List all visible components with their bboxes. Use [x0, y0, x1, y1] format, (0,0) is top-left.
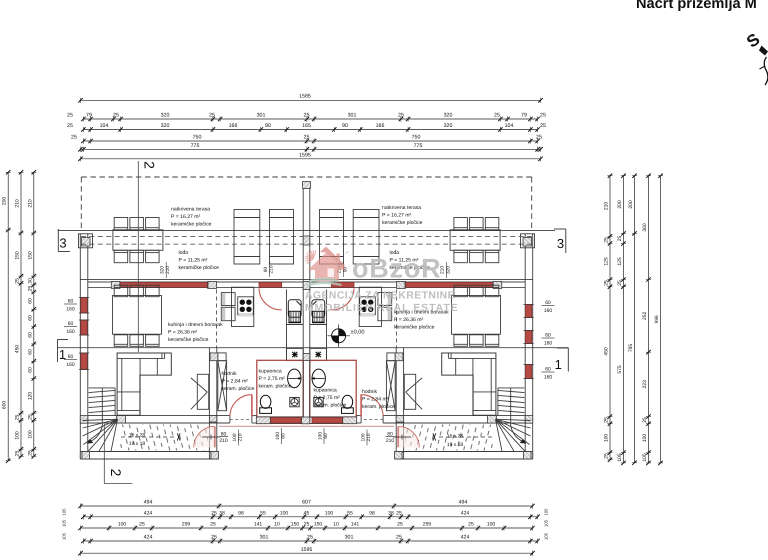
svg-text:natkrivena terasa: natkrivena terasa: [382, 205, 421, 211]
svg-text:P = 2,75 m²: P = 2,75 m²: [314, 395, 341, 401]
svg-text:25: 25: [494, 113, 500, 119]
kitchen zone dashed line (left unit): [215, 290, 217, 348]
bottom dimension labels: [62, 500, 549, 553]
section marker 1 right: [555, 348, 569, 372]
svg-text:320: 320: [445, 266, 451, 274]
svg-text:105: 105: [62, 519, 67, 527]
corridor vertical wall (left unit): [209, 348, 216, 459]
svg-text:25: 25: [603, 280, 609, 286]
svg-text:25: 25: [210, 522, 216, 528]
right dimension lines: [607, 174, 663, 466]
svg-text:25: 25: [304, 135, 310, 141]
svg-text:10: 10: [333, 522, 339, 528]
svg-text:141: 141: [254, 522, 263, 528]
svg-text:252: 252: [642, 311, 648, 320]
svg-text:105: 105: [544, 508, 549, 516]
left dimension labels: [2, 197, 34, 457]
svg-text:55: 55: [260, 511, 266, 517]
svg-text:25: 25: [211, 535, 217, 541]
svg-text:105: 105: [544, 519, 549, 527]
svg-text:25: 25: [617, 236, 623, 242]
corridor top wall (left unit): [88, 416, 257, 423]
svg-text:210: 210: [603, 202, 609, 211]
corridor wall hatched block mid (left unit): [117, 416, 126, 423]
svg-text:100: 100: [15, 431, 21, 440]
terrace dining table (left unit): [113, 230, 163, 251]
wardrobe with K symbol (left unit): [191, 374, 209, 409]
svg-text:104: 104: [100, 123, 109, 129]
svg-text:19 x 18: 19 x 18: [447, 442, 464, 448]
svg-text:160: 160: [66, 362, 75, 368]
svg-text:25: 25: [468, 522, 474, 528]
svg-text:166: 166: [376, 123, 385, 129]
svg-text:100: 100: [487, 522, 496, 528]
svg-text:15 x 28: 15 x 28: [447, 434, 464, 440]
red window 320/210 in band (left unit): [120, 281, 208, 289]
svg-text:19 x 18: 19 x 18: [129, 441, 146, 447]
svg-text:25: 25: [67, 113, 73, 119]
svg-text:320: 320: [444, 113, 453, 119]
section marker 3 right: [554, 229, 566, 253]
svg-text:575: 575: [617, 365, 623, 374]
svg-text:10: 10: [274, 522, 280, 528]
svg-text:100: 100: [118, 522, 127, 528]
left wall hatched block bottom corner (left unit): [80, 452, 88, 460]
svg-text:494: 494: [144, 500, 153, 506]
straight flight treads (left unit): [89, 390, 116, 412]
svg-text:775: 775: [191, 143, 200, 149]
terrace chairs bottom row (left unit): [114, 250, 159, 263]
svg-text:30: 30: [27, 278, 33, 284]
svg-text:60: 60: [281, 433, 287, 439]
section marker 2 top: [142, 161, 158, 169]
svg-text:100: 100: [280, 511, 289, 517]
interior chairs bottom row (left unit): [114, 335, 159, 347]
bath south red wall with window (left unit): [256, 417, 303, 424]
svg-text:105: 105: [544, 532, 549, 540]
svg-text:160: 160: [66, 329, 75, 335]
svg-text:795: 795: [628, 344, 634, 353]
svg-text:320: 320: [444, 123, 453, 129]
svg-text:kupaonica: kupaonica: [314, 388, 337, 394]
svg-text:301: 301: [345, 535, 354, 541]
svg-text:150: 150: [27, 251, 33, 260]
svg-text:210: 210: [15, 199, 21, 208]
svg-text:25: 25: [139, 522, 145, 528]
svg-text:79: 79: [86, 113, 92, 119]
svg-text:100: 100: [275, 432, 281, 440]
svg-text:P = 26,36 m²: P = 26,36 m²: [394, 317, 424, 323]
svg-text:±0,00: ±0,00: [351, 330, 365, 336]
svg-text:125: 125: [603, 257, 609, 266]
svg-text:hodnik: hodnik: [222, 371, 237, 377]
svg-text:320: 320: [160, 266, 166, 274]
svg-text:15 x 28: 15 x 28: [129, 433, 146, 439]
bottom dimension lines: [78, 503, 540, 555]
svg-text:oBzoR: oBzoR: [352, 254, 441, 284]
svg-text:IMMOBILIEN REAL ESTATE: IMMOBILIEN REAL ESTATE: [301, 303, 459, 314]
svg-text:2: 2: [108, 469, 124, 477]
bottom exterior wall (left unit): [82, 452, 219, 460]
svg-text:210: 210: [238, 433, 244, 441]
svg-text:60: 60: [27, 367, 33, 373]
svg-text:natkrivena terasa: natkrivena terasa: [171, 207, 210, 213]
svg-text:25: 25: [304, 113, 310, 119]
svg-text:105: 105: [62, 508, 67, 516]
svg-text:Nacrt prizemlja M: Nacrt prizemlja M: [636, 0, 757, 12]
svg-text:600: 600: [2, 401, 8, 410]
svg-text:25: 25: [396, 511, 402, 517]
svg-text:3: 3: [59, 236, 66, 251]
svg-text:90: 90: [265, 123, 271, 129]
svg-text:AGENCIJA ZA NEKRETNINE: AGENCIJA ZA NEKRETNINE: [305, 291, 455, 302]
svg-text:424: 424: [144, 511, 153, 517]
loggia north edge line (left unit): [58, 230, 307, 232]
svg-text:60: 60: [27, 298, 33, 304]
svg-text:360: 360: [642, 223, 648, 232]
svg-text:100: 100: [603, 434, 609, 443]
window 60/160 labels: [64, 299, 555, 381]
watermark real-estate logo: [301, 247, 459, 315]
svg-text:P = 26,36 m²: P = 26,36 m²: [168, 329, 198, 335]
top dimension labels: [67, 94, 546, 159]
bathroom red outline (left unit): [257, 360, 303, 417]
svg-text:keram. pločice: keram. pločice: [314, 402, 347, 408]
svg-text:keram. pločice: keram. pločice: [362, 404, 395, 410]
winder fan treads (left unit): [83, 419, 118, 451]
terrace chairs top row (left unit): [114, 218, 159, 231]
svg-text:55: 55: [347, 511, 353, 517]
vent shaft box with star (left unit): [287, 348, 304, 360]
svg-text:P = 2,84 m²: P = 2,84 m²: [222, 378, 249, 384]
svg-text:25: 25: [27, 286, 33, 292]
left wall windows 60/160: [79, 298, 89, 370]
loggia slab edge line (left unit): [80, 279, 306, 281]
svg-text:1: 1: [555, 357, 562, 372]
svg-text:301: 301: [348, 113, 357, 119]
svg-text:150: 150: [15, 251, 21, 260]
svg-text:25: 25: [617, 280, 623, 286]
svg-text:200: 200: [2, 197, 8, 206]
svg-text:100: 100: [360, 433, 366, 441]
sun lounger A (left unit): [234, 210, 260, 265]
sofa L-shaped (left unit): [117, 353, 171, 415]
svg-text:299: 299: [182, 522, 191, 528]
shaft top square (left unit): [210, 353, 226, 361]
right dimension labels: [603, 200, 660, 462]
svg-text:996: 996: [654, 315, 660, 323]
svg-text:25: 25: [211, 511, 217, 517]
left dimension lines: [6, 170, 37, 463]
left wall hatched block at corridor junction (left unit): [80, 416, 88, 424]
svg-text:223: 223: [642, 380, 648, 389]
svg-text:25: 25: [304, 522, 310, 528]
svg-text:25: 25: [307, 535, 313, 541]
entry door centre leader (left unit): [202, 435, 220, 440]
svg-text:25: 25: [603, 453, 609, 459]
svg-text:25: 25: [540, 123, 546, 129]
svg-text:450: 450: [603, 347, 609, 356]
svg-text:keramičke pločice: keramičke pločice: [168, 337, 209, 343]
svg-text:P = 16,27 m²: P = 16,27 m²: [382, 212, 412, 218]
top dimension lines: [78, 98, 542, 162]
svg-text:141: 141: [351, 522, 360, 528]
svg-text:keramičke pločice: keramičke pločice: [179, 265, 220, 271]
svg-text:38: 38: [388, 511, 394, 517]
svg-text:P = 16,27 m²: P = 16,27 m²: [171, 214, 201, 220]
hall door opening dashed (left unit): [230, 416, 252, 423]
svg-text:25: 25: [397, 522, 403, 528]
left exterior wall (left unit): [80, 234, 88, 459]
svg-text:3: 3: [557, 236, 564, 251]
svg-text:210: 210: [269, 265, 275, 273]
svg-text:775: 775: [414, 143, 423, 149]
svg-text:1585: 1585: [299, 94, 311, 100]
svg-text:98: 98: [238, 511, 244, 517]
section line 1-1: [57, 347, 569, 349]
svg-text:160: 160: [544, 374, 553, 380]
svg-text:105: 105: [62, 532, 67, 540]
svg-text:kuhinja i dnevni boravak: kuhinja i dnevni boravak: [168, 322, 223, 328]
svg-text:25: 25: [540, 113, 546, 119]
svg-text:´: ´: [345, 249, 349, 264]
svg-text:1595: 1595: [299, 153, 311, 159]
svg-text:79: 79: [521, 113, 527, 119]
svg-text:165: 165: [302, 123, 311, 129]
svg-text:25: 25: [642, 417, 648, 423]
svg-text:60: 60: [323, 433, 329, 439]
svg-text:210: 210: [219, 438, 228, 444]
svg-text:25: 25: [398, 113, 404, 119]
red loggia door leaf and swing arc (left unit): [259, 282, 282, 309]
svg-text:25: 25: [113, 113, 119, 119]
svg-text:25: 25: [15, 451, 21, 457]
washer niche wall (left unit): [287, 290, 304, 361]
svg-text:100: 100: [27, 430, 33, 439]
svg-text:25: 25: [603, 237, 609, 243]
svg-text:607: 607: [302, 500, 311, 506]
svg-text:lođa: lođa: [179, 250, 189, 256]
corridor wall hatched blocks (left unit): [209, 416, 216, 459]
svg-text:25: 25: [209, 113, 215, 119]
svg-text:25: 25: [67, 123, 73, 129]
svg-text:104: 104: [505, 123, 514, 129]
svg-text:25: 25: [71, 135, 77, 141]
toilet (left unit): [260, 395, 272, 413]
svg-text:424: 424: [461, 511, 470, 517]
svg-text:210: 210: [366, 433, 372, 441]
svg-text:keramičke pločice: keramičke pločice: [171, 221, 212, 227]
svg-text:210: 210: [27, 199, 33, 208]
svg-text:38: 38: [219, 511, 225, 517]
svg-text:P = 2,75 m²: P = 2,75 m²: [259, 376, 286, 382]
svg-text:424: 424: [461, 535, 470, 541]
svg-text:494: 494: [459, 500, 468, 506]
svg-text:450: 450: [15, 345, 21, 354]
terrace canopy dashed boundary (left unit): [81, 177, 306, 231]
svg-text:299: 299: [423, 522, 432, 528]
loggia-living red wall band (left unit): [88, 282, 303, 288]
svg-text:166: 166: [229, 123, 238, 129]
tall X-braced duct (left unit): [218, 361, 227, 411]
svg-text:320: 320: [161, 123, 170, 129]
right dwelling unit geometry (mirror copy of left unit elements): [307, 177, 556, 459]
svg-text:45: 45: [304, 511, 310, 517]
svg-text:750: 750: [193, 135, 202, 141]
kitchen cabinets (left unit): [221, 293, 235, 321]
sun lounger B (left unit): [270, 210, 294, 265]
entry red door leaf and arc (left unit): [194, 427, 215, 448]
svg-text:105: 105: [617, 453, 623, 462]
section marker 3 left: [58, 229, 70, 252]
sheet title: [636, 0, 757, 12]
svg-text:98: 98: [369, 511, 375, 517]
svg-text:P = 2,84 m²: P = 2,84 m²: [362, 396, 389, 402]
shower drain (left unit): [290, 397, 299, 406]
svg-text:2: 2: [142, 161, 158, 169]
svg-text:424: 424: [144, 535, 153, 541]
svg-text:301: 301: [257, 113, 266, 119]
svg-text:25: 25: [15, 278, 21, 284]
svg-text:301: 301: [260, 535, 269, 541]
svg-text:210: 210: [386, 438, 395, 444]
stairwell top edge (left unit): [89, 388, 116, 416]
party wall: [302, 182, 311, 425]
dashed hatch over entry corridor (left unit): [120, 425, 208, 451]
svg-text:750: 750: [412, 135, 421, 141]
band hatched columns (left unit): [111, 281, 216, 288]
north arrow S: [743, 30, 768, 85]
svg-text:25: 25: [603, 417, 609, 423]
svg-text:150: 150: [314, 522, 323, 528]
svg-text:125: 125: [617, 257, 623, 266]
stove with 4 burners (left unit): [238, 297, 254, 317]
interior chairs top row (left unit): [114, 285, 159, 297]
svg-text:150: 150: [291, 522, 300, 528]
svg-text:keram. pločice: keram. pločice: [259, 383, 292, 389]
svg-text:P = 11,25 m²: P = 11,25 m²: [179, 257, 208, 263]
svg-text:160: 160: [66, 306, 75, 312]
corner column top-left (left unit): [79, 234, 93, 248]
svg-text:25: 25: [536, 135, 542, 141]
svg-text:200: 200: [628, 200, 634, 209]
svg-text:25: 25: [27, 450, 33, 456]
section marker 1 left: [58, 340, 69, 363]
door and window size labels: [160, 262, 452, 446]
svg-text:90: 90: [263, 267, 269, 273]
svg-text:60: 60: [27, 315, 33, 321]
washbasin with arrow (left unit): [288, 369, 302, 388]
svg-text:100: 100: [325, 511, 334, 517]
svg-text:60: 60: [27, 332, 33, 338]
svg-text:210: 210: [165, 266, 171, 274]
section line 2-2: [104, 161, 138, 484]
hall red door leaf and arc (left unit): [230, 395, 252, 417]
section marker 2 bottom: [108, 469, 124, 477]
svg-text:25: 25: [396, 535, 402, 541]
room labels: [129, 205, 464, 448]
svg-text:60: 60: [27, 349, 33, 355]
svg-text:keramičke pločice: keramičke pločice: [382, 220, 423, 226]
svg-text:160: 160: [544, 340, 553, 346]
svg-text:25: 25: [15, 415, 21, 421]
porch face thin line (left unit): [219, 425, 307, 427]
svg-text:90: 90: [342, 123, 348, 129]
svg-text:320: 320: [161, 113, 170, 119]
svg-text:160: 160: [544, 308, 553, 314]
svg-text:keram. pločice: keram. pločice: [222, 386, 255, 392]
svg-text:kupaonica: kupaonica: [259, 369, 282, 375]
interior dining table (left unit): [113, 296, 162, 335]
upper-floor overhang dashed pair (left unit): [81, 237, 307, 245]
svg-text:25: 25: [27, 414, 33, 420]
svg-text:100: 100: [232, 433, 238, 441]
svg-text:100: 100: [317, 432, 323, 440]
svg-text:keramičke pločice: keramičke pločice: [394, 324, 435, 330]
stair walkline with arrow (left unit): [87, 388, 180, 444]
svg-text:100: 100: [642, 434, 648, 443]
right wall windows 60/160: [523, 305, 533, 379]
svg-text:120: 120: [27, 392, 33, 401]
washing machine (left unit): [288, 300, 301, 323]
svg-text:hodnik: hodnik: [362, 389, 377, 395]
svg-text:1595: 1595: [301, 547, 313, 553]
svg-text:200: 200: [617, 200, 623, 209]
kitchen counter (left unit): [232, 287, 254, 326]
svg-text:105: 105: [642, 453, 648, 462]
level marker ±0,00: [328, 325, 351, 348]
